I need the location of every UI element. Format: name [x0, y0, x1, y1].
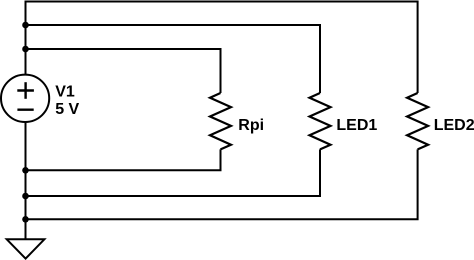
svg-text:V1: V1: [55, 84, 75, 101]
svg-text:LED1: LED1: [336, 117, 377, 134]
svg-text:5 V: 5 V: [55, 101, 79, 118]
svg-text:LED2: LED2: [434, 117, 474, 134]
svg-text:Rpi: Rpi: [238, 117, 264, 134]
